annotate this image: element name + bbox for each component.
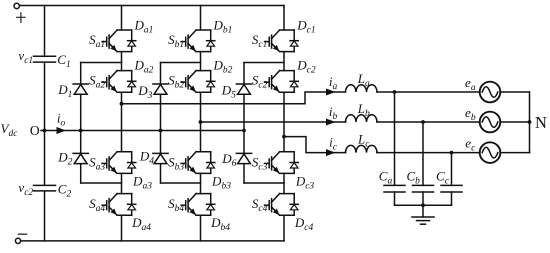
top DC rail wire — [20, 5, 284, 7]
clamp leg b top connector wire — [161, 62, 201, 64]
clamp leg a top connector wire — [81, 62, 122, 64]
phase leg c vertical wire segments — [283, 6, 285, 241]
neutral rail wire from O — [41, 130, 244, 132]
svg-text:io: io — [57, 111, 66, 129]
svg-text:Sc2: Sc2 — [252, 72, 268, 90]
IGBT switch S_a2 — [102, 71, 136, 93]
wire e_a to N bus — [501, 91, 530, 93]
wire e_c to N bus — [501, 152, 530, 154]
svg-text:vc2: vc2 — [18, 180, 33, 198]
svg-text:Db2: Db2 — [212, 57, 232, 75]
svg-text:Sa2: Sa2 — [89, 72, 105, 90]
positive DC terminal — [14, 3, 19, 8]
IGBT switch S_a4 — [102, 194, 136, 216]
svg-text:Sb1: Sb1 — [168, 32, 184, 50]
junction dot C_a tap — [393, 90, 397, 94]
svg-text:O: O — [30, 123, 40, 138]
svg-text:Sb4: Sb4 — [168, 196, 184, 214]
capacitor common bus wire — [395, 204, 452, 206]
svg-text:vc1: vc1 — [18, 48, 33, 66]
svg-text:Dc1: Dc1 — [296, 17, 315, 35]
svg-text:D5: D5 — [221, 83, 236, 101]
capacitor C1 — [34, 56, 56, 62]
clamp leg c top connector wire — [244, 62, 284, 64]
source e_b — [480, 112, 501, 133]
svg-text:Db1: Db1 — [212, 17, 232, 35]
svg-text:Da3: Da3 — [132, 174, 152, 192]
filter capacitor C_c — [441, 185, 462, 192]
phase b output node dot — [199, 120, 203, 124]
svg-text:Dc4: Dc4 — [294, 215, 314, 233]
inductor L_c — [346, 145, 378, 152]
IGBT switch S_a3 — [102, 152, 136, 174]
clamp diode D6 — [236, 153, 251, 163]
wire e_b to N bus — [501, 121, 530, 123]
svg-text:Sa1: Sa1 — [89, 32, 105, 50]
filter capacitor C_a lead wire — [394, 92, 396, 205]
minus sign label — [18, 233, 27, 235]
svg-text:D4: D4 — [139, 149, 154, 167]
IGBT switch S_b2 — [181, 71, 215, 93]
svg-text:Da1: Da1 — [133, 17, 153, 35]
wire L_a to source e_a — [377, 91, 480, 93]
i_a current arrow — [326, 89, 336, 96]
filter capacitor C_c lead wire — [451, 153, 453, 206]
svg-text:Sa4: Sa4 — [89, 196, 105, 214]
i_o current arrow — [57, 127, 67, 134]
clamp leg c vertical wire — [243, 63, 245, 184]
phase b output wire — [201, 121, 346, 123]
svg-text:Cc: Cc — [436, 168, 450, 186]
phase a output node dot — [120, 102, 124, 106]
junction dot clamp c x neutral end — [242, 129, 246, 133]
svg-text:ib: ib — [329, 104, 338, 122]
phase leg a vertical wire segments — [121, 6, 123, 241]
clamp diode D2 — [73, 153, 88, 163]
ground — [412, 205, 434, 224]
DC-link vertical wire middle — [44, 62, 46, 185]
svg-text:Da2: Da2 — [133, 57, 153, 75]
svg-text:Sb3: Sb3 — [168, 154, 184, 172]
svg-text:Sc4: Sc4 — [252, 196, 268, 214]
svg-text:ia: ia — [329, 74, 338, 92]
svg-text:D3: D3 — [137, 83, 152, 101]
inductor L_a — [346, 85, 378, 92]
i_c current arrow — [326, 149, 336, 156]
svg-text:Sa3: Sa3 — [89, 154, 105, 172]
phase leg b vertical wire segments — [200, 6, 202, 241]
bottom DC rail wire — [21, 240, 284, 242]
IGBT switch S_b1 — [181, 30, 215, 52]
IGBT switch S_b4 — [181, 194, 215, 216]
IGBT switch S_a1 — [102, 30, 136, 52]
wire L_c to source e_c — [377, 152, 480, 154]
svg-text:Sb2: Sb2 — [168, 72, 184, 90]
svg-text:D1: D1 — [57, 82, 72, 100]
svg-text:ic: ic — [329, 135, 338, 153]
svg-text:Db3: Db3 — [211, 174, 231, 192]
clamp diode D4 — [153, 153, 168, 163]
capacitor C2 — [34, 185, 56, 191]
svg-text:Cb: Cb — [406, 168, 420, 186]
svg-text:ec: ec — [465, 136, 476, 154]
junction dot at N — [528, 120, 532, 124]
svg-text:D6: D6 — [221, 151, 236, 169]
svg-text:Dc2: Dc2 — [296, 57, 316, 75]
IGBT switch S_c3 — [265, 152, 299, 174]
filter capacitor C_a — [384, 185, 405, 192]
clamp leg c bottom connector wire — [244, 182, 284, 184]
junction dot clamp b x neutral — [159, 129, 163, 133]
DC-link vertical wire upper — [44, 6, 46, 57]
svg-text:Ca: Ca — [379, 168, 393, 186]
source e_c — [480, 142, 501, 163]
svg-text:Vdc: Vdc — [1, 121, 19, 139]
junction dot C_b tap — [421, 120, 425, 124]
phase c output wire — [284, 137, 346, 153]
negative DC terminal — [15, 238, 20, 243]
svg-text:Sc1: Sc1 — [252, 32, 267, 50]
svg-text:ea: ea — [465, 75, 476, 93]
svg-text:Db4: Db4 — [210, 215, 230, 233]
plus sign label — [16, 12, 26, 23]
svg-text:eb: eb — [465, 105, 476, 123]
svg-text:Sc3: Sc3 — [252, 154, 268, 172]
wire L_b to source e_b — [377, 121, 480, 123]
i_b current arrow — [326, 119, 336, 126]
inductor L_b — [346, 115, 378, 122]
svg-text:Dc3: Dc3 — [295, 174, 315, 192]
N bus vertical wire — [529, 92, 531, 153]
source e_a — [480, 82, 501, 103]
clamp leg a bottom connector wire — [81, 182, 122, 184]
phase c output node dot — [282, 135, 286, 139]
DC-link vertical wire lower — [44, 191, 46, 241]
clamp diode D5 — [236, 84, 251, 94]
svg-text:N: N — [535, 113, 547, 132]
junction dot clamp a x neutral — [79, 129, 83, 133]
filter capacitor C_b — [413, 185, 434, 192]
clamp diode D3 — [153, 84, 168, 94]
svg-text:D2: D2 — [57, 149, 72, 167]
IGBT switch S_c2 — [265, 71, 299, 93]
svg-text:C2: C2 — [58, 182, 72, 200]
svg-text:Da4: Da4 — [131, 215, 151, 233]
clamp leg b bottom connector wire — [161, 182, 201, 184]
clamp leg b vertical wire — [160, 63, 162, 184]
filter capacitor C_b lead wire — [422, 122, 424, 205]
IGBT switch S_c4 — [265, 194, 299, 216]
clamp diode D1 — [73, 84, 88, 94]
phase a output wire — [122, 92, 346, 104]
clamp leg a vertical wire — [80, 63, 82, 184]
junction dot ground tap — [421, 203, 425, 207]
junction dot C_c tap — [450, 151, 454, 155]
IGBT switch S_b3 — [181, 152, 215, 174]
junction dot DC-link x neutral — [43, 129, 47, 133]
IGBT switch S_c1 — [265, 30, 299, 52]
svg-text:C1: C1 — [57, 52, 70, 70]
